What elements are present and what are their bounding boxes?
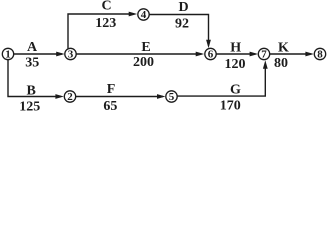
svg-text:200: 200 xyxy=(133,55,154,70)
svg-text:K: K xyxy=(278,41,289,56)
svg-text:5: 5 xyxy=(169,91,175,103)
svg-text:125: 125 xyxy=(19,100,40,115)
svg-text:2: 2 xyxy=(67,91,73,103)
svg-text:6: 6 xyxy=(208,49,214,61)
svg-text:G: G xyxy=(230,83,241,98)
svg-text:H: H xyxy=(230,41,241,56)
svg-text:3: 3 xyxy=(68,49,74,61)
svg-text:A: A xyxy=(27,40,38,55)
svg-text:120: 120 xyxy=(225,57,246,72)
svg-text:92: 92 xyxy=(175,17,189,32)
svg-text:E: E xyxy=(141,40,150,55)
svg-text:D: D xyxy=(179,0,189,15)
svg-text:4: 4 xyxy=(141,9,147,21)
svg-text:35: 35 xyxy=(25,55,39,70)
svg-text:170: 170 xyxy=(220,99,241,114)
svg-text:1: 1 xyxy=(5,49,11,61)
svg-text:80: 80 xyxy=(274,56,288,71)
svg-text:F: F xyxy=(107,82,116,97)
svg-text:65: 65 xyxy=(103,99,117,114)
svg-text:7: 7 xyxy=(261,49,267,61)
svg-text:123: 123 xyxy=(95,16,116,31)
svg-text:C: C xyxy=(102,0,112,13)
svg-text:8: 8 xyxy=(317,49,323,61)
svg-text:B: B xyxy=(27,83,36,98)
